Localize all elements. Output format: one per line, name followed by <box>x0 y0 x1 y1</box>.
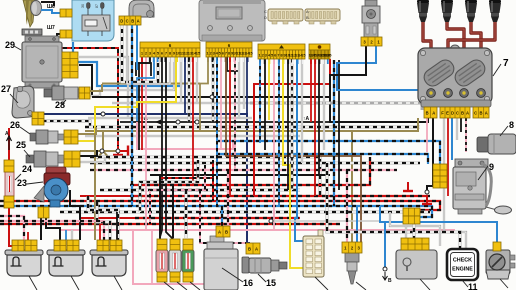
wire red-black dash H22 <box>130 157 370 185</box>
wire blue H31 to gauge <box>380 206 497 243</box>
svg-text:8: 8 <box>509 120 514 130</box>
node N2 <box>100 149 104 153</box>
wire blue-black dash H16b <box>216 141 440 164</box>
connector near9 upper <box>433 164 447 176</box>
leader 13 <box>356 282 366 290</box>
label Sh6 <box>47 4 55 10</box>
label 11 <box>468 282 478 290</box>
svg-text:87: 87 <box>95 4 99 8</box>
connector sensor25 <box>64 151 80 167</box>
leader box1 <box>29 276 37 290</box>
leader 9 <box>478 166 488 180</box>
wire pink-black dash into box3 <box>0 221 104 240</box>
wire pink-black dash into conn16 <box>227 170 229 226</box>
connector fuse24 bottom <box>4 196 14 208</box>
leader 10 <box>420 279 430 290</box>
svg-text:E: E <box>446 110 449 115</box>
wire red-black dash from relay Sh7 <box>57 46 118 146</box>
svg-text:B: B <box>388 278 392 284</box>
wire strip1 pin7 black long to fuseB <box>166 57 173 243</box>
wire black H12 solid <box>120 118 428 122</box>
relay box bottom-2 <box>47 250 85 276</box>
wire module black drop to ground <box>427 118 433 193</box>
svg-text:B: B <box>248 246 251 251</box>
wire DCBA d2 white U <box>127 21 170 84</box>
wire strip3 pin3 yellow <box>268 59 270 120</box>
wire white H15 <box>85 135 300 137</box>
wire black-white dash H32 to check lamp <box>327 163 460 250</box>
relay box K (blue) <box>72 0 114 41</box>
wire strip3 pin4 pink <box>273 59 275 230</box>
wire khaki test line y151 <box>80 150 118 152</box>
connector sensor13 <box>342 242 362 253</box>
leader 29 <box>14 46 21 50</box>
wire white stub box2 <box>71 230 73 240</box>
wire black jumper strip1 <box>136 63 151 76</box>
wire white H8 <box>112 102 250 104</box>
wire blue-black dash into conn16 <box>221 206 223 226</box>
svg-text:↑A: ↑A <box>303 116 310 122</box>
svg-text:27: 27 <box>1 84 11 94</box>
wire black drops to fuse A <box>159 175 161 238</box>
wire bw dash stair2 <box>97 202 110 240</box>
ground point G1 red T <box>113 146 123 155</box>
wire white H11 <box>88 117 252 119</box>
wire strip1 pin14 red long <box>192 57 194 185</box>
leader 26 <box>20 127 30 134</box>
svg-text:C: C <box>264 9 267 14</box>
connector sensor27 <box>32 112 44 125</box>
label 25 <box>16 140 26 150</box>
node N3 <box>116 149 120 153</box>
wire red main left vertical upper <box>8 128 10 160</box>
HT wire plug2 <box>447 22 464 90</box>
wire black-white dash H23 <box>100 188 300 191</box>
svg-text:C: C <box>474 110 477 115</box>
wire strip3 pin2 black <box>264 59 266 150</box>
connector strip X2 <box>206 42 253 57</box>
node N1 on navy <box>101 112 105 116</box>
label 15 <box>266 278 276 288</box>
connector box2 a <box>54 240 66 251</box>
wire reddash stair sA <box>160 160 213 184</box>
connector X5 row1 <box>403 208 420 216</box>
svg-text:C: C <box>126 18 129 23</box>
node N6 on black y122 <box>195 120 199 124</box>
ground bar red right <box>120 146 128 157</box>
svg-text:A: A <box>218 229 221 234</box>
wire black drops to fuse B <box>172 185 174 238</box>
fuse 24 body <box>5 172 14 196</box>
svg-text:B: B <box>461 110 464 115</box>
leader 24 <box>15 174 21 180</box>
svg-text:B: B <box>131 18 134 23</box>
leader box3 <box>114 276 122 290</box>
wire bw dash to fuse C <box>184 190 187 238</box>
svg-text:23: 23 <box>17 178 27 188</box>
wire strip1 pin13 bw dash <box>188 57 191 122</box>
svg-text:B: B <box>306 15 309 20</box>
wire black-white dash H12b <box>85 125 420 128</box>
wire black H21 <box>150 174 330 176</box>
wire khaki H13 long <box>85 118 418 131</box>
injector 15 body <box>242 257 287 273</box>
HT wire plug4 <box>448 22 495 90</box>
label 27 <box>1 84 11 94</box>
wire red-black dash H25 long <box>0 201 440 210</box>
wire pink-black dash H20 <box>90 169 397 171</box>
label Sh7 <box>47 25 55 31</box>
node ground node module <box>425 190 429 194</box>
svg-text:24: 24 <box>22 164 32 174</box>
wire white from module29 <box>79 57 128 118</box>
wire strip3 pin5 bluedash <box>278 59 280 206</box>
wire blue-black dash H16c <box>216 154 428 164</box>
svg-text:D: D <box>264 15 267 20</box>
connector box1 a <box>12 240 24 251</box>
wire bwdash stair sC <box>140 160 198 212</box>
component 10 box <box>396 250 437 279</box>
leader box2 <box>71 276 79 290</box>
svg-text:Ш6: Ш6 <box>47 4 55 10</box>
wire blue drop to node B <box>384 222 386 267</box>
wire strip3 pin1 bluedash <box>259 59 261 143</box>
connector near9 lower <box>433 176 447 188</box>
leader 7 <box>493 64 501 76</box>
wire strip4 pin4 white <box>323 59 325 150</box>
svg-text:A: A <box>255 246 258 251</box>
wire khaki from sensor26 <box>78 127 96 134</box>
wire pinkdash to inj15 <box>200 190 246 243</box>
connector box1 b <box>25 240 37 251</box>
inline fuse B <box>169 250 181 272</box>
wire strip2 pin9 white <box>243 57 245 109</box>
wire strip2 pin5 brown long <box>226 57 361 243</box>
connector module7 FEDCBA <box>440 107 470 118</box>
label 16 <box>243 278 253 288</box>
leader 28 <box>62 100 66 104</box>
leader 11 <box>462 280 468 287</box>
leader 25 <box>24 150 30 157</box>
gauge 12 body <box>486 250 515 279</box>
leader 8 <box>500 126 508 136</box>
sensor round top (throttle actuator) <box>129 0 154 18</box>
wire bw dash into conn10 <box>412 212 415 238</box>
HT wire plug3 <box>471 22 481 90</box>
wire red-black dash H29 <box>0 223 340 225</box>
wire black jumper strip2 <box>227 57 239 71</box>
label 8 <box>509 120 514 130</box>
spark plugs 1-4 <box>417 0 501 22</box>
check engine lamp 11 <box>447 249 478 280</box>
connector fuseC top <box>183 239 193 250</box>
svg-text:A: A <box>485 110 488 115</box>
relay box bottom-3 <box>90 250 128 276</box>
marker arrow A left <box>5 131 12 150</box>
wire red main left vertical lower <box>9 208 16 246</box>
wire strip4 pin3 black <box>318 59 320 175</box>
wire black horn stub <box>41 2 54 6</box>
label 24 <box>22 164 32 174</box>
wire white into conn10 <box>405 226 407 238</box>
wire black-white dash H18 <box>90 157 320 196</box>
connector strip X1 <box>140 42 201 57</box>
pump 23 body <box>34 167 70 207</box>
sensor 27 body <box>12 86 34 118</box>
wire khaki fork leg2 <box>103 151 110 159</box>
relay box bottom-1 <box>5 250 43 276</box>
wire strip2 pin7 pinkdash <box>234 57 236 170</box>
wire module red drop <box>447 118 449 196</box>
wire module pink-black drop <box>465 118 467 152</box>
wire pink-black dash into box1 <box>0 216 24 240</box>
leader fuseC <box>190 282 200 290</box>
svg-text:9: 9 <box>489 162 494 172</box>
wire red H24a <box>80 195 130 197</box>
wire black from sensor25 <box>80 150 97 156</box>
ground point G3 red T <box>422 195 432 204</box>
wire khaki V into box2 <box>94 134 96 240</box>
sensor 25 body <box>26 151 64 167</box>
wire blue-black dash V2 <box>333 60 335 206</box>
wire gray dash H8b to module <box>250 103 422 110</box>
connector box10 <box>401 238 429 250</box>
inline fuse A <box>156 250 168 272</box>
wire red stub box1 <box>27 232 29 240</box>
wire white U2 <box>90 57 174 96</box>
wire strip1 pin6 black long to fuseA <box>160 57 162 243</box>
wire black-white dash H19 <box>90 161 420 164</box>
HT wire plug1 <box>423 22 431 90</box>
leader 14 <box>315 277 328 290</box>
connector module29 <box>62 52 78 78</box>
marker arrow A right <box>303 116 310 122</box>
svg-text:16: 16 <box>243 278 253 288</box>
svg-text:25: 25 <box>16 140 26 150</box>
svg-text:D: D <box>451 110 454 115</box>
wire black stair3 <box>70 190 80 240</box>
connector fuseB top <box>170 239 180 250</box>
wire red-black dash H24 <box>130 195 430 197</box>
wire bw dash from conn27 <box>43 121 90 127</box>
svg-text:15: 15 <box>196 51 201 56</box>
svg-text:B: B <box>479 110 482 115</box>
svg-text:15: 15 <box>327 53 332 58</box>
wire DCBA d4 blue <box>136 21 138 70</box>
wire strip2 pin10 navy long <box>246 57 248 114</box>
node B test point <box>383 267 387 271</box>
connector box3 b <box>110 240 122 251</box>
connector Sh7 <box>60 30 72 38</box>
connector Sh6 <box>60 9 72 17</box>
connector fuseA bottom <box>157 272 167 282</box>
label 28 <box>55 100 65 110</box>
svg-text:A: A <box>306 9 309 14</box>
wire black V3 <box>338 60 340 190</box>
svg-text:15: 15 <box>301 53 306 58</box>
wire strip2 pin2 bwdash <box>212 57 215 122</box>
wire strip3 pin9 blue long to conn14 <box>295 59 303 241</box>
connector box2 b <box>67 240 79 251</box>
sensor mid-top body <box>362 0 380 37</box>
wire strip2 pin6 red <box>229 57 231 196</box>
connector X5 row2 <box>403 216 420 224</box>
connector sensor28 <box>79 87 90 99</box>
inline fuse C <box>182 250 194 272</box>
wire strip1 pin15 white <box>196 57 198 103</box>
connector fuseA top <box>157 239 167 250</box>
wire white from sensor25 <box>80 157 105 162</box>
wire strip1 pin2 pink <box>145 57 147 230</box>
module 29 body <box>22 36 62 88</box>
wire stub fringe under strips <box>142 57 328 64</box>
wire module pink drop <box>426 118 428 152</box>
wire blue horn to Sh6 <box>41 10 60 13</box>
wire module white drop1 <box>444 118 466 250</box>
node N4 gray <box>269 219 273 223</box>
ignition module 7 <box>418 45 492 107</box>
svg-text:11: 11 <box>468 282 478 290</box>
wire black H7 long <box>92 97 428 122</box>
wire gray line from node <box>271 220 380 222</box>
svg-text:D: D <box>120 18 123 23</box>
connector box3 a <box>97 240 109 251</box>
svg-text:29: 29 <box>5 40 15 50</box>
wire yellow long to conn14 <box>283 59 303 268</box>
node N5 on black y122 <box>176 120 180 124</box>
ECU controller box <box>199 0 265 41</box>
wire khaki fork leg1 <box>97 151 103 159</box>
svg-text:CHECK: CHECK <box>453 258 472 264</box>
ECU harness connector <box>264 9 340 24</box>
sensor 26 body <box>30 130 64 144</box>
svg-text:15: 15 <box>266 278 276 288</box>
connector module7 BA <box>424 107 437 118</box>
wire pinkdash stair sB <box>150 165 205 224</box>
wire pink drop x133 <box>133 230 232 284</box>
label 9 <box>489 162 494 172</box>
wire blue stub box2 <box>65 230 67 240</box>
wire strip2 pin1 khaki <box>200 57 208 131</box>
connector fuse24 top <box>4 160 14 172</box>
connector fuseB bottom <box>170 272 180 282</box>
marker arrow B <box>383 272 393 284</box>
wire strip4 pin2 red <box>314 59 316 196</box>
wire strip1 pin3 black elbow <box>139 57 150 150</box>
svg-text:7: 7 <box>503 58 509 69</box>
wire black H1 <box>79 65 92 97</box>
svg-text:30: 30 <box>81 4 85 8</box>
wire yellow Y1 pin10 to sensor26 <box>78 57 176 141</box>
wire khaki from O2 <box>90 84 102 91</box>
wire black pump drop2 <box>46 218 60 240</box>
wire khaki vert x103 <box>102 131 104 151</box>
leader 12 <box>500 279 508 288</box>
wire reddash vertical x213 <box>212 178 214 201</box>
speed sensor 13 body <box>345 253 359 284</box>
wire navy H9 long <box>43 114 250 243</box>
label 7 <box>503 58 509 69</box>
wire strip4 pin1 red <box>310 59 312 122</box>
wire strip1 pin4 blue elbow <box>137 57 154 121</box>
wire strip3 pin10 white <box>301 59 303 163</box>
svg-text:28: 28 <box>55 100 65 110</box>
wire red-black dash H28 <box>135 217 300 219</box>
wire str3 pin8 bwdash <box>291 59 294 190</box>
leader fuseA <box>164 282 174 290</box>
wire DCBA d1 white-black dash U <box>122 21 158 82</box>
wire strip2 pin3 bluedash long to conn16 <box>217 57 222 226</box>
connector pump23 <box>38 207 49 218</box>
connector strip X4 (B) <box>309 44 333 59</box>
leader 23 <box>27 182 43 184</box>
wire strip1 pin1 red <box>141 57 143 150</box>
ground point G4 red T <box>403 182 413 191</box>
wire white corner near lamp <box>390 212 440 246</box>
leader fuseB <box>177 282 187 290</box>
wire black stub box3 <box>116 212 118 240</box>
wire black-white dash H27 <box>60 210 430 213</box>
node N7 black bus <box>210 95 214 99</box>
wire blue V4 from sensor3 <box>337 46 452 160</box>
svg-text:F: F <box>441 110 444 115</box>
wire black from Sh7 <box>57 34 60 46</box>
wire strip2 pin8 white <box>238 57 240 118</box>
wire red H28a <box>80 217 135 219</box>
wire strip3 pin7 black <box>287 59 289 190</box>
wire blue U from relay <box>73 42 181 86</box>
svg-text:Ш7: Ш7 <box>47 25 55 31</box>
wire strip1 pin11 white <box>180 57 182 103</box>
label 29 <box>5 40 15 50</box>
leader 27 <box>10 94 18 103</box>
sensor 28 body <box>44 86 86 100</box>
connector sensor26 <box>64 130 78 144</box>
wire pink-black dash V6 to sensor13 <box>346 170 348 243</box>
wire khaki H4 run <box>102 83 200 85</box>
wire bw dash stair1 <box>88 196 118 240</box>
wire red bus y84 <box>254 59 330 196</box>
wire khaki branch to sensor13 <box>351 131 353 243</box>
svg-text:ENGINE: ENGINE <box>452 267 473 273</box>
wire blue-black dash H26 long <box>0 206 432 217</box>
leader 16 <box>222 268 243 282</box>
wire black V5 from sensor3 <box>330 46 366 97</box>
marker arrow A mid2 <box>141 116 161 125</box>
label 23 <box>17 178 27 188</box>
wire pink H30 <box>60 229 455 231</box>
leader 15 <box>258 274 266 282</box>
wire red fuse24 top <box>8 150 10 160</box>
connector fuseC bottom <box>183 272 193 282</box>
connector injector15 <box>246 243 260 254</box>
svg-text:A: A <box>432 110 435 115</box>
connector module7 CBA <box>473 107 489 118</box>
svg-text:A: A <box>466 110 469 115</box>
svg-text:B: B <box>426 110 429 115</box>
wire module white drop2 <box>456 118 458 140</box>
svg-text:A: A <box>5 131 9 137</box>
component 8 body <box>477 134 516 154</box>
connector strip X3 (A) <box>258 44 306 59</box>
wire pink drop x152 <box>151 230 153 284</box>
connector box16 <box>216 226 230 237</box>
svg-text:A: A <box>137 18 140 23</box>
wire red stub box3 <box>99 224 101 240</box>
connector DCBA <box>119 16 141 25</box>
component 9 body <box>453 159 512 214</box>
connector gauge12 <box>493 242 501 251</box>
